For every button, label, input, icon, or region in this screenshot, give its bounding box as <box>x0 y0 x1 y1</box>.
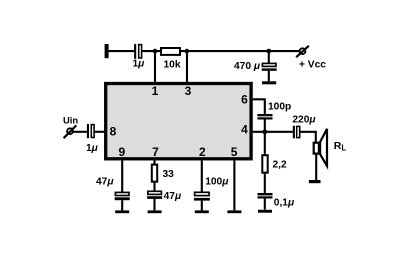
wire pin 4 <box>253 131 293 133</box>
svg-text:47μ: 47μ <box>96 176 114 187</box>
wire <box>268 71 270 82</box>
svg-text:33: 33 <box>163 169 175 180</box>
wire pin 7 <box>153 161 155 165</box>
node junction pin4 <box>262 129 267 134</box>
node junction C2 <box>266 49 271 54</box>
wire <box>153 199 155 211</box>
svg-text:1μ: 1μ <box>133 58 146 69</box>
svg-text:10k: 10k <box>164 60 181 71</box>
wire <box>264 132 266 155</box>
wire <box>264 174 266 193</box>
ground <box>148 210 162 213</box>
capacitor C5 47u plus plate <box>148 191 162 194</box>
input terminal stub <box>105 44 109 58</box>
capacitor C3 1u plus plate <box>87 124 89 138</box>
resistor R2 33 <box>152 165 157 182</box>
wire pin 8 <box>95 131 106 133</box>
wire pin 1 <box>154 51 156 83</box>
svg-text:1: 1 <box>152 84 159 98</box>
svg-text:47μ: 47μ <box>164 191 182 202</box>
capacitor C9 0,1u plate a <box>258 193 273 195</box>
capacitor C2 470u minus plate <box>262 68 277 70</box>
capacitor C1 1u plus plate <box>134 44 136 59</box>
capacitor C8 220u minus plate <box>297 126 300 137</box>
wire <box>121 200 123 210</box>
svg-text:3: 3 <box>185 84 192 98</box>
capacitor C5 47u minus plate <box>147 196 162 199</box>
capacitor C8 220u plus plate <box>293 126 295 139</box>
svg-text:470 μ: 470 μ <box>234 61 261 72</box>
capacitor C6 100u plus plate <box>195 192 210 195</box>
svg-text:Uin: Uin <box>63 115 78 126</box>
capacitor C1 1u minus plate <box>139 45 142 58</box>
wire <box>264 199 266 210</box>
svg-text:9: 9 <box>118 145 125 159</box>
svg-text:0,1μ: 0,1μ <box>274 197 295 208</box>
capacitor C3 1u minus plate <box>91 125 94 138</box>
capacitor C2 470u plus plate <box>262 63 276 66</box>
svg-text:1μ: 1μ <box>86 143 99 154</box>
wire <box>109 50 135 52</box>
ground <box>309 180 321 183</box>
capacitor C4 47u minus plate <box>115 197 130 200</box>
ground <box>115 210 129 213</box>
wire pin 3 <box>186 51 188 83</box>
wire <box>201 201 203 211</box>
wire <box>153 183 155 192</box>
wire pin 2 <box>201 161 203 193</box>
wire <box>268 51 270 63</box>
ground <box>262 81 276 84</box>
svg-text:+ Vcc: + Vcc <box>299 60 326 71</box>
wire <box>264 120 266 132</box>
svg-text:2: 2 <box>199 145 206 159</box>
wire <box>315 154 317 180</box>
ground <box>258 210 272 213</box>
resistor R1 10k <box>161 48 180 55</box>
svg-text:100μ: 100μ <box>205 176 229 187</box>
speaker LS1 cone <box>320 129 327 166</box>
wire <box>181 50 299 52</box>
terminal Uin <box>64 125 77 138</box>
speaker LS1 driver <box>314 143 319 154</box>
ground <box>227 210 241 213</box>
IC U1 <box>106 84 251 159</box>
wire pin 9 <box>121 161 123 193</box>
svg-text:4: 4 <box>241 122 248 136</box>
svg-text:5: 5 <box>231 145 238 159</box>
svg-text:8: 8 <box>110 125 117 139</box>
resistor R3 2,2 <box>262 155 267 173</box>
capacitor C9 0,1u plate b <box>258 196 273 198</box>
terminal +Vcc <box>296 46 309 57</box>
node junction pin3 <box>185 49 190 54</box>
svg-text:2,2: 2,2 <box>273 160 287 171</box>
node junction pin1 <box>153 49 158 54</box>
svg-text:6: 6 <box>241 93 248 107</box>
capacitor C7 100p plate a <box>257 114 272 116</box>
svg-text:100p: 100p <box>268 102 291 113</box>
capacitor C7 100p plate b <box>257 117 272 119</box>
wire <box>142 50 160 52</box>
svg-text:7: 7 <box>152 145 159 159</box>
capacitor C4 47u plus plate <box>115 192 129 195</box>
wire pin 6 <box>253 99 265 114</box>
svg-text:220μ: 220μ <box>292 114 316 125</box>
wire <box>300 132 315 142</box>
capacitor C6 100u minus plate <box>194 198 210 201</box>
wire pin 5 <box>233 161 235 211</box>
wire <box>74 131 87 133</box>
ground <box>195 210 209 213</box>
